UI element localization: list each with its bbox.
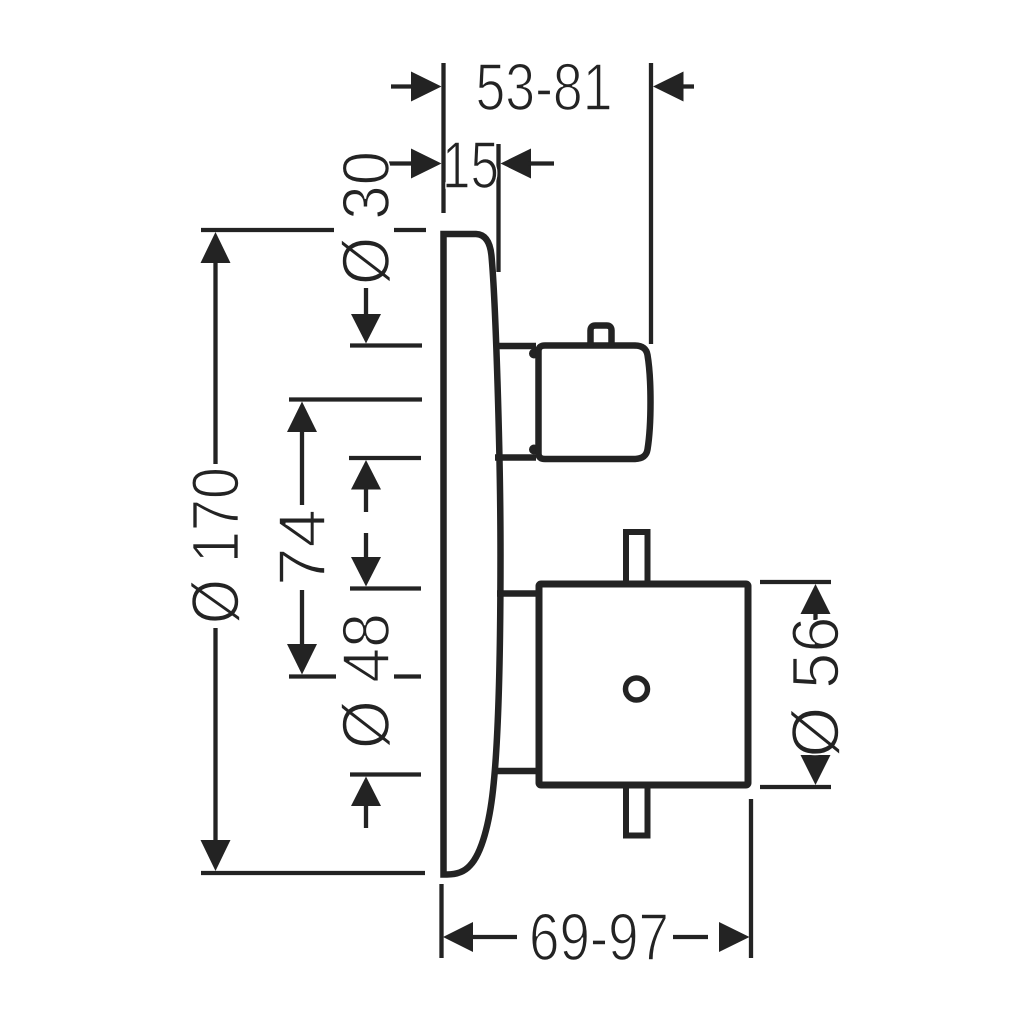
svg-text:Ø 30: Ø 30	[329, 151, 404, 285]
dim 69-97 left extension line	[439, 884, 443, 958]
valve bottom pin	[626, 788, 648, 836]
svg-text:74: 74	[265, 509, 340, 586]
dim O48 upper outside arrow	[364, 533, 368, 560]
dim 15 right arrow	[501, 149, 532, 179]
dim O30 lower outside arrow	[351, 460, 381, 490]
upper sleeve corner dot top	[529, 349, 539, 359]
dim 15 left arrow	[389, 161, 413, 165]
lower sleeve top line	[497, 590, 537, 597]
upper sleeve corner dot bottom	[529, 445, 539, 455]
svg-text:Ø 56: Ø 56	[779, 617, 854, 758]
upper sleeve bottom line	[495, 454, 536, 461]
valve center circle	[626, 678, 648, 700]
svg-text:Ø 48: Ø 48	[329, 613, 404, 749]
dim 69-97 dimension line	[470, 935, 708, 939]
wall plate outline	[444, 234, 501, 875]
dim O56 bottom arrow	[801, 755, 831, 785]
dim 53-81 left extension line	[441, 63, 445, 213]
dim O30 top extension line	[350, 343, 422, 347]
dim O170 dimension line	[213, 261, 217, 842]
dim 69-97 right extension line	[749, 799, 753, 958]
dim O170 bottom extension line	[201, 871, 425, 875]
svg-text:53-81: 53-81	[476, 50, 613, 125]
dim O56 dimension line	[813, 612, 817, 758]
upper sleeve top line	[494, 343, 536, 350]
handle tab	[591, 326, 612, 348]
dim O56 bottom extension line	[760, 785, 831, 789]
dim O56 top arrow	[801, 584, 831, 614]
dim O170 top arrow	[201, 232, 231, 263]
dim 69-97 right arrow	[719, 922, 750, 952]
dim 74 dimension line	[300, 430, 304, 647]
dim 15 right extension line	[496, 144, 500, 272]
dim O48 lower outside arrow	[351, 777, 381, 807]
svg-text:69-97: 69-97	[529, 900, 669, 975]
dim O56 top extension line	[760, 580, 831, 584]
dim O170 bottom arrow	[201, 840, 231, 871]
svg-text:15: 15	[442, 128, 499, 203]
dim 53-81 right extension line	[649, 63, 653, 344]
dim O30 upper outside arrow	[364, 288, 368, 318]
dim 53-81 right arrow	[653, 72, 684, 102]
dim 53-81 left arrow	[391, 84, 414, 88]
thermostat handle	[539, 346, 651, 460]
dim 74 bottom extension line	[289, 674, 421, 678]
dim O48 top extension line	[350, 586, 421, 590]
dim 69-97 left arrow	[443, 922, 473, 952]
dim O48 bottom extension line	[350, 772, 421, 776]
dim 74 bottom arrow	[287, 644, 317, 675]
dim O30 bottom extension line	[349, 456, 421, 460]
svg-text:Ø 170: Ø 170	[179, 467, 254, 624]
valve top pin	[626, 532, 648, 581]
lower sleeve bottom line	[492, 768, 537, 775]
dim 74 top arrow	[287, 402, 317, 433]
valve box	[539, 584, 748, 785]
dim 74 top extension line	[289, 397, 422, 401]
dim O170 top extension line	[201, 228, 426, 232]
